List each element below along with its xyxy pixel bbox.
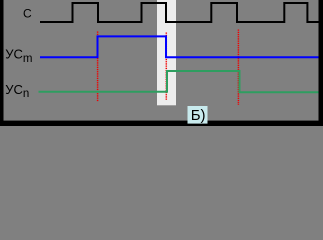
right border: [319, 0, 323, 126]
green waveform УСn: [39, 71, 322, 92]
red dotted marker at green fall: [237, 30, 239, 106]
red dotted marker at blue fall / green rise: [165, 33, 167, 101]
svg-text:C: C: [23, 7, 32, 21]
bottom border bar: [0, 121, 323, 126]
caption box Б): [188, 106, 208, 124]
highlight band: [157, 0, 176, 105]
left border: [0, 0, 4, 126]
blue waveform УСm: [40, 36, 321, 57]
clock waveform C: [40, 3, 321, 22]
red dotted marker at blue rise: [97, 32, 99, 103]
svg-text:Б): Б): [191, 107, 206, 124]
